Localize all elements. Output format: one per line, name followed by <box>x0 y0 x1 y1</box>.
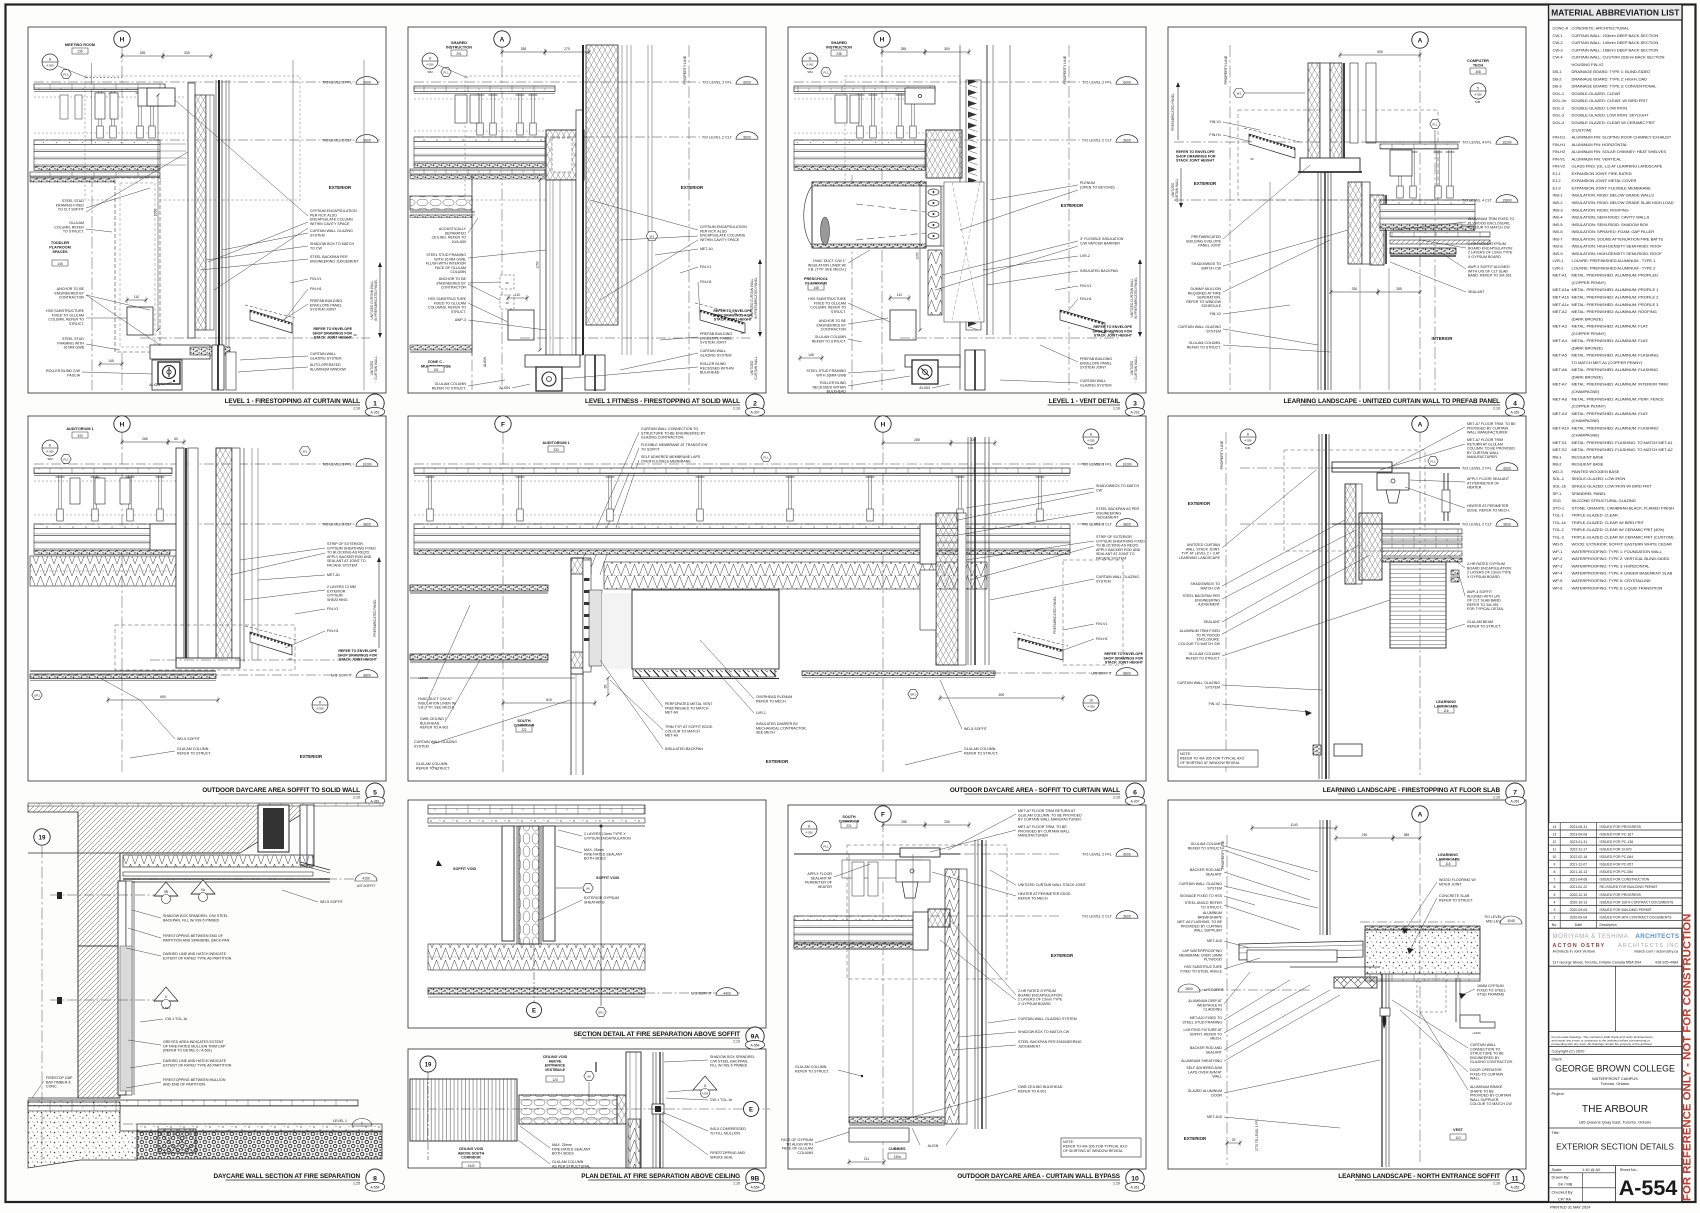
svg-text:330: 330 <box>1352 287 1358 291</box>
detail 11: LEARNING LANDSCAPE - NORTH ENTRANCE SOFFIT <box>1419 822 1421 1165</box>
level lines <box>1240 467 1460 469</box>
svg-text:1:10: 1:10 <box>353 407 360 411</box>
detail 6: OUTDOOR DAYCARE AREA - SOFFIT TO CURTAIN WALL <box>502 432 504 775</box>
svg-text:Copyright (C) 2020: Copyright (C) 2020 <box>1552 1048 1586 1053</box>
svg-text:120: 120 <box>552 1078 558 1082</box>
svg-text:ISSUED FOR PC-057: ISSUED FOR PC-057 <box>1600 863 1634 867</box>
svg-text:AWP-3: AWP-3 <box>455 318 466 322</box>
svg-text:U/S SOFFIT: U/S SOFFIT <box>1204 988 1225 992</box>
crosshatch band soffit <box>1334 977 1377 988</box>
svg-text:20: 20 <box>740 331 744 335</box>
material abbreviation list header <box>1549 5 1682 21</box>
svg-text:OUTDOOR DAYCARE AREA - SOFFIT: OUTDOOR DAYCARE AREA - SOFFIT TO CURTAIN… <box>950 787 1120 794</box>
svg-text:285: 285 <box>140 51 146 55</box>
svg-text:60: 60 <box>174 437 178 441</box>
ceiling hangers <box>428 475 430 521</box>
svg-text:2021-02-22: 2021-02-22 <box>1570 885 1588 889</box>
svg-text:FL1: FL1 <box>823 844 829 848</box>
svg-text:CONCRETE SLABREFER TO STRUCT.: CONCRETE SLABREFER TO STRUCT. <box>1439 894 1473 902</box>
svg-text:AWP-3 SOFFIT ALIGNEDWITH U/S O: AWP-3 SOFFIT ALIGNEDWITH U/S OF CLT SLAB… <box>1468 265 1512 278</box>
dimension 330 <box>951 442 995 444</box>
svg-text:SK / MB: SK / MB <box>1558 1182 1573 1187</box>
clt ledge <box>150 524 178 550</box>
dimension 285 <box>122 55 163 57</box>
svg-text:9B: 9B <box>751 1175 760 1182</box>
revision table <box>1549 823 1682 831</box>
door verticals <box>1381 974 1383 1167</box>
left wall below <box>410 211 475 213</box>
svg-text:FIN-V1: FIN-V1 <box>327 607 338 611</box>
svg-text:PROPERTY LINE: PROPERTY LINE <box>1063 55 1067 84</box>
svg-text:1:10: 1:10 <box>1113 796 1120 800</box>
svg-text:2024-05-31: 2024-05-31 <box>1570 825 1588 829</box>
svg-text:116: 116 <box>1443 709 1448 713</box>
dimension 505 <box>1340 54 1420 56</box>
glulam beam <box>1390 562 1446 648</box>
detail key 10/A-556 <box>1083 695 1099 711</box>
roller blind circle <box>158 362 180 384</box>
door frame dark top right <box>258 805 289 852</box>
svg-text:1050: 1050 <box>153 209 157 217</box>
svg-text:SIM: SIM <box>427 70 433 74</box>
svg-text:Checked By:: Checked By: <box>1552 1189 1574 1194</box>
tag W1 <box>1234 88 1245 97</box>
svg-text:5600: 5600 <box>743 135 751 139</box>
grid bubble A <box>1412 416 1428 432</box>
svg-text:FIN-V1: FIN-V1 <box>1210 120 1221 124</box>
note box <box>1061 1138 1141 1157</box>
wall below left <box>570 674 572 775</box>
svg-text:W1: W1 <box>1237 91 1242 95</box>
svg-text:5: 5 <box>1553 893 1555 897</box>
svg-text:LEARNING LANDSCAPE - FIRESTOPP: LEARNING LANDSCAPE - FIRESTOPPING AT FLO… <box>1323 787 1501 794</box>
svg-text:A-554: A-554 <box>1619 1176 1678 1200</box>
svg-text:H: H <box>881 421 886 428</box>
svg-text:11: 11 <box>1553 847 1557 851</box>
svg-text:T/O LEVEL 4 FFL: T/O LEVEL 4 FFL <box>1462 140 1492 144</box>
slab support lines below <box>1365 974 1480 981</box>
svg-text:221: 221 <box>846 824 852 828</box>
svg-text:T/O LEVEL 3 FFL: T/O LEVEL 3 FFL <box>322 462 352 466</box>
svg-text:CURTAIN WALL: CURTAIN WALL <box>1134 356 1138 380</box>
grid bubble A <box>1412 806 1428 822</box>
svg-text:T/O LEVEL 2 CLT: T/O LEVEL 2 CLT <box>1082 914 1113 918</box>
svg-text:GLULAM COLUMNREFER TO STRUCT.: GLULAM COLUMNREFER TO STRUCT. <box>1188 842 1223 850</box>
svg-text:FIN-V1: FIN-V1 <box>700 265 711 269</box>
grid circle 19 <box>34 829 50 845</box>
awp3 bits <box>1451 570 1459 575</box>
svg-text:LEVEL 1 - VENT DETAIL: LEVEL 1 - VENT DETAIL <box>1049 398 1120 405</box>
svg-text:IN PREFABRICATED PANEL: IN PREFABRICATED PANEL <box>1134 277 1138 319</box>
svg-text:2022-02-18: 2022-02-18 <box>1570 855 1588 859</box>
svg-text:3: 3 <box>1553 908 1555 912</box>
mullion joint symbol <box>652 1104 664 1114</box>
svg-text:HSS SUBSTRUCTUREFIXED TO STEEL: HSS SUBSTRUCTUREFIXED TO STEEL ANGLE <box>1180 965 1222 973</box>
svg-text:145: 145 <box>108 359 114 363</box>
prefab sloped fin <box>700 310 745 333</box>
svg-text:5: 5 <box>373 789 377 796</box>
stack joint dashed line <box>140 337 370 339</box>
svg-text:H: H <box>880 36 885 43</box>
detail key 8/A-556 <box>1240 429 1256 445</box>
svg-text:WD-5 SOFFIT: WD-5 SOFFIT <box>320 900 344 904</box>
svg-text:PRINTED 31 MAY 2024: PRINTED 31 MAY 2024 <box>1550 1206 1590 1210</box>
svg-text:110: 110 <box>134 295 140 299</box>
svg-text:SEALANT: SEALANT <box>1204 620 1221 624</box>
cavity lines <box>251 448 253 660</box>
svg-text:A-351: A-351 <box>1510 799 1519 803</box>
dimension 690 <box>940 697 1063 699</box>
svg-text:ISSUED FOR CONSTRUCTION: ISSUED FOR CONSTRUCTION <box>1600 878 1650 882</box>
svg-text:110: 110 <box>897 293 903 297</box>
svg-text:10200: 10200 <box>362 462 371 466</box>
svg-text:11: 11 <box>808 56 812 60</box>
svg-text:201: 201 <box>456 52 462 56</box>
detail 3: LEVEL 1 - VENT DETAIL <box>881 45 883 390</box>
svg-text:T/O LEVEL 2 FFL: T/O LEVEL 2 FFL <box>1082 80 1112 84</box>
dimension 285 <box>883 442 951 444</box>
svg-text:ISSUED FOR PC-136: ISSUED FOR PC-136 <box>1600 840 1634 844</box>
svg-text:CUBBIES: CUBBIES <box>888 1147 906 1151</box>
svg-text:FL1: FL1 <box>63 457 69 461</box>
svg-text:8: 8 <box>373 1175 377 1182</box>
svg-text:15800: 15800 <box>1502 198 1511 202</box>
svg-text:UNITIZED CURTAIN WALL STACK JO: UNITIZED CURTAIN WALL STACK JOINT. <box>1018 883 1087 887</box>
floor slab assembly <box>414 524 1070 529</box>
svg-text:GEORGE BROWN COLLEGE: GEORGE BROWN COLLEGE <box>1555 1064 1675 1074</box>
prefab panel sloped fin <box>250 310 292 333</box>
window head assembly <box>150 345 210 359</box>
sloped soffit line <box>300 862 330 870</box>
svg-text:2770 TO LEVEL 1 FFL: 2770 TO LEVEL 1 FFL <box>1255 1119 1259 1151</box>
svg-text:19: 19 <box>39 835 46 842</box>
sloped fin right <box>250 632 292 655</box>
svg-text:1:10 @ A0: 1:10 @ A0 <box>1582 1167 1601 1172</box>
floor slab assembly <box>414 137 545 142</box>
svg-text:A-361: A-361 <box>370 799 379 803</box>
svg-text:6000: 6000 <box>1503 466 1511 470</box>
svg-text:WD-5 SOFFIT: WD-5 SOFFIT <box>177 737 201 741</box>
svg-text:SIM.: SIM. <box>1245 446 1251 450</box>
svg-text:2 LAYERS 13mm TYPE XGYPSUM ENC: 2 LAYERS 13mm TYPE XGYPSUM ENCAPSULATION <box>584 832 631 840</box>
svg-text:416-925-4484: 416-925-4484 <box>1655 960 1678 964</box>
panel P10 border <box>788 805 1146 1169</box>
svg-text:EXTERIOR: EXTERIOR <box>766 759 789 764</box>
svg-text:1: 1 <box>373 400 377 407</box>
dimension 285 <box>882 51 925 53</box>
svg-text:330: 330 <box>184 51 190 55</box>
plenum outline <box>944 182 984 322</box>
heater box <box>1377 473 1409 490</box>
triangle marker 8/A-554 <box>693 1076 717 1090</box>
svg-text:LEVEL 1: LEVEL 1 <box>333 1119 347 1123</box>
floor trim top <box>794 853 960 855</box>
svg-text:ISSUED FOR BUILDING PERMIT: ISSUED FOR BUILDING PERMIT <box>1600 908 1653 912</box>
svg-text:CURTAIN WALL: CURTAIN WALL <box>374 356 378 380</box>
dashed box right <box>1063 560 1123 665</box>
detail key 8/A-556 <box>422 53 438 69</box>
tag A6 <box>583 884 593 893</box>
svg-text:ANCHOR TO BEENGINEERED BYCONTR: ANCHOR TO BEENGINEERED BYCONTRACTOR <box>436 277 466 290</box>
svg-text:W1: W1 <box>303 449 308 453</box>
tag W1 <box>646 231 658 241</box>
svg-text:Toronto, Ontario: Toronto, Ontario <box>1601 1081 1630 1086</box>
svg-text:5600: 5600 <box>1503 522 1511 526</box>
interior face lines <box>28 852 240 854</box>
svg-text:F: F <box>881 811 885 818</box>
svg-text:FL1: FL1 <box>63 72 69 76</box>
svg-text:PREFABRICATED PANEL: PREFABRICATED PANEL <box>373 599 377 637</box>
svg-text:385: 385 <box>1404 833 1410 837</box>
backpan boxes <box>920 524 936 564</box>
panel P11 border <box>1168 800 1526 1169</box>
fin top left sloped <box>1249 134 1295 158</box>
grid circle 19 <box>420 1056 436 1072</box>
firestop crosshatch box at clt <box>546 130 584 180</box>
tag FL1 <box>1428 457 1438 466</box>
svg-text:8: 8 <box>49 57 51 61</box>
soffit assembly bands <box>123 855 313 867</box>
svg-text:A-556: A-556 <box>46 450 54 454</box>
soffit bottom band <box>428 988 645 994</box>
dimension 110 <box>508 297 527 299</box>
grid bubble H <box>875 416 891 432</box>
dimension 330 <box>163 55 211 57</box>
svg-text:ALIGN: ALIGN <box>499 386 510 390</box>
svg-text:EXTERIOR: EXTERIOR <box>1188 501 1211 506</box>
ceiling band <box>34 468 172 474</box>
svg-text:11: 11 <box>1511 1175 1518 1182</box>
svg-text:A-556: A-556 <box>316 707 324 711</box>
svg-text:ARCHITECTS INC: ARCHITECTS INC <box>1618 943 1680 949</box>
tag FL1 <box>441 68 451 77</box>
svg-text:A6: A6 <box>587 1074 591 1078</box>
svg-text:ISSUED FOR 100% CONTRACT DOCUM: ISSUED FOR 100% CONTRACT DOCUMENTS <box>1600 900 1675 904</box>
hss substructure box <box>127 307 153 335</box>
svg-text:FIN-V2: FIN-V2 <box>1209 702 1220 706</box>
svg-text:7: 7 <box>1513 789 1517 796</box>
insulation batt band <box>30 556 176 586</box>
svg-text:GLULAM COLUMN.REFER TO STRUCT.: GLULAM COLUMN.REFER TO STRUCT. <box>964 747 998 755</box>
svg-text:ALIGN: ALIGN <box>928 1144 939 1148</box>
ceiling band <box>414 86 555 92</box>
svg-text:H: H <box>120 421 125 428</box>
svg-text:SIM: SIM <box>47 457 53 461</box>
svg-text:8: 8 <box>1247 432 1249 436</box>
svg-text:A: A <box>1418 421 1423 428</box>
us soffit marker <box>123 878 360 880</box>
svg-text:MEETING ROOM: MEETING ROOM <box>65 43 95 47</box>
svg-text:4: 4 <box>1513 400 1517 407</box>
svg-text:T/O LEVEL 2 FFL: T/O LEVEL 2 FFL <box>322 80 352 84</box>
svg-text:FIN-H1: FIN-H1 <box>1209 133 1221 137</box>
svg-text:10: 10 <box>1131 1175 1139 1182</box>
left vertical hatched wall lower <box>78 946 120 1098</box>
shadow box section <box>1348 182 1362 264</box>
svg-text:E: E <box>749 1108 753 1114</box>
svg-text:LEVEL 1 - FIRESTOPPING AT CURT: LEVEL 1 - FIRESTOPPING AT CURTAIN WALL <box>225 398 361 405</box>
svg-text:T/O LEVEL 2 FFL: T/O LEVEL 2 FFL <box>1462 466 1492 470</box>
svg-text:3: 3 <box>1133 400 1137 407</box>
dimension 690 <box>108 699 218 701</box>
anchor dashed boxes <box>500 275 514 289</box>
svg-text:1:10: 1:10 <box>1113 407 1120 411</box>
panel P5 border <box>28 416 386 781</box>
long vertical zigzag curtain wall <box>945 869 959 1124</box>
svg-text:ANCHOR TO BEENGINEERED BYCONTR: ANCHOR TO BEENGINEERED BYCONTRACTOR <box>54 287 84 300</box>
tag SP1 <box>908 690 918 699</box>
svg-text:ISSUED FOR PC-084: ISSUED FOR PC-084 <box>1600 855 1634 859</box>
window sill below <box>176 658 240 668</box>
svg-text:A-556: A-556 <box>1244 439 1252 443</box>
tag A6 <box>584 1072 594 1081</box>
wall at left section <box>571 558 583 674</box>
svg-text:13: 13 <box>1552 832 1556 836</box>
sloped fin bottom right <box>1018 638 1063 660</box>
svg-text:5600: 5600 <box>1123 914 1131 918</box>
floor slab assembly <box>794 140 925 145</box>
svg-text:ISSUED FOR PC-167: ISSUED FOR PC-167 <box>1600 832 1634 836</box>
floor slab assembly <box>34 524 170 529</box>
svg-text:INSULATED BACKPAN: INSULATED BACKPAN <box>665 747 703 751</box>
svg-text:5600: 5600 <box>1123 138 1131 142</box>
svg-text:GLULAM COLUMNREFER TO STRUCT.: GLULAM COLUMNREFER TO STRUCT. <box>1186 652 1221 660</box>
svg-text:INSULATED BACKPAN: INSULATED BACKPAN <box>1080 269 1118 273</box>
svg-text:Description: Description <box>1600 923 1617 927</box>
svg-text:8: 8 <box>49 443 51 447</box>
svg-text:FIN-H1: FIN-H1 <box>1096 637 1108 641</box>
svg-text:T/O LEVEL 3 CLT: T/O LEVEL 3 CLT <box>1082 522 1113 526</box>
floor slab assembly <box>34 140 160 145</box>
svg-text:PROPERTY LINE: PROPERTY LINE <box>1224 55 1228 84</box>
svg-text:T/O LEVEL 2 CLT: T/O LEVEL 2 CLT <box>322 138 353 142</box>
detail 7: LEARNING LANDSCAPE - FIRESTOPPING AT FLOOR SLAB <box>1419 430 1421 775</box>
svg-text:FIN-V1: FIN-V1 <box>310 277 321 281</box>
svg-text:EXTERIOR: EXTERIOR <box>1194 181 1217 186</box>
dashed outline <box>847 845 1007 979</box>
svg-text:16MM GYPSUMFIXED TO STEELSTUD: 16MM GYPSUMFIXED TO STEELSTUD FRAMING <box>1477 984 1506 997</box>
svg-text:4400: 4400 <box>723 991 731 995</box>
svg-text:LEARNING LANDSCAPE - UNITIZED: LEARNING LANDSCAPE - UNITIZED CURTAIN WA… <box>1284 398 1501 405</box>
svg-text:MET-A1: MET-A1 <box>327 573 340 577</box>
svg-text:SOFFIT VOID: SOFFIT VOID <box>453 867 476 871</box>
top hatched ceiling mass <box>28 805 305 946</box>
shaft walls <box>502 826 514 941</box>
svg-text:+20800: +20800 <box>418 676 428 680</box>
exterior sheathing hatch <box>586 45 618 325</box>
svg-text:FIN-V2: FIN-V2 <box>1210 312 1221 316</box>
central wall assembly <box>546 180 576 355</box>
detail key 8/A-556 <box>42 54 58 70</box>
curtain wall below <box>1317 172 1319 390</box>
grid bubble A <box>494 31 510 47</box>
material abbreviation list box <box>1549 5 1682 1203</box>
dimension 270 <box>545 51 589 53</box>
svg-text:U/S SOFFIT: U/S SOFFIT <box>691 991 713 995</box>
detail 2: LEVEL 1 FITNESS - FIRESTOPPING AT SOLID WALL <box>501 45 503 390</box>
property line <box>688 45 690 390</box>
svg-text:IN PREFABRICATED PANEL: IN PREFABRICATED PANEL <box>754 277 758 319</box>
svg-text:REFER TO ENVELOPESHOP DRAWINGS: REFER TO ENVELOPESHOP DRAWINGS FORSTACK … <box>713 309 753 322</box>
svg-text:9800: 9800 <box>1123 522 1131 526</box>
clt slab edge lines <box>160 143 186 145</box>
svg-text:W1: W1 <box>650 234 655 238</box>
curtain wall mullion bundle <box>1318 434 1320 779</box>
svg-text:690: 690 <box>160 695 166 699</box>
grid bubble A <box>1412 32 1428 48</box>
dimension 1050 <box>539 180 541 350</box>
svg-text:THE ARBOUR: THE ARBOUR <box>1582 1104 1648 1115</box>
svg-text:7: 7 <box>1553 878 1555 882</box>
svg-text:FL1: FL1 <box>443 70 449 74</box>
tag FL1 <box>821 68 831 77</box>
svg-text:A-202: A-202 <box>1130 410 1139 414</box>
svg-text:115: 115 <box>1445 862 1450 866</box>
tag FL1 <box>61 455 71 464</box>
level lines <box>1174 141 1460 143</box>
svg-text:101: 101 <box>433 368 439 372</box>
dimension 25 <box>1227 1142 1240 1144</box>
svg-text:235: 235 <box>77 50 83 54</box>
svg-text:AUDITORIUM 1: AUDITORIUM 1 <box>542 441 569 445</box>
svg-text:CEILING VOIDABOVE SOUTHCORRIDO: CEILING VOIDABOVE SOUTHCORRIDOR <box>458 1147 485 1160</box>
svg-text:ALUMINUM TRIM FIXED TOPLYWOOD: ALUMINUM TRIM FIXED TOPLYWOOD ENCLOSURE,… <box>1468 217 1515 230</box>
svg-text:A-307: A-307 <box>750 410 759 414</box>
detail key 11/X-561 <box>802 53 818 69</box>
svg-text:OUTDOOR DAYCARE AREA - CURTAIN: OUTDOOR DAYCARE AREA - CURTAIN WALL BYPA… <box>957 1173 1121 1180</box>
svg-text:HEATER AT PERIMETEREDGE. REFER: HEATER AT PERIMETEREDGE. REFER TO MECH. <box>1467 504 1510 512</box>
svg-text:X-561: X-561 <box>806 63 814 67</box>
svg-text:GLULAM COLUMN.REFER TO STRUCT.: GLULAM COLUMN.REFER TO STRUCT. <box>795 1065 829 1073</box>
svg-text:PREFABRICATED PANEL: PREFABRICATED PANEL <box>1171 93 1175 131</box>
svg-text:117 George Street, Toronto, On: 117 George Street, Toronto, Ontario Cana… <box>1553 960 1642 964</box>
svg-text:CEILING VOIDABOVEENTRANCEVESTI: CEILING VOIDABOVEENTRANCEVESTIBULE <box>543 1055 568 1072</box>
floor trim assembly top <box>1332 462 1392 472</box>
svg-text:2: 2 <box>753 400 757 407</box>
svg-text:5: 5 <box>1477 86 1479 90</box>
svg-text:SF1: SF1 <box>598 1010 604 1014</box>
gypsum encapsulation box <box>147 88 175 106</box>
svg-text:1:10: 1:10 <box>733 1182 740 1186</box>
svg-text:Project:: Project: <box>1552 1091 1565 1096</box>
svg-text:SECTION DETAIL AT FIRE SEPARAT: SECTION DETAIL AT FIRE SEPARATION ABOVE … <box>574 1031 741 1038</box>
interior lines <box>848 854 850 1117</box>
svg-text:690: 690 <box>999 693 1005 697</box>
svg-text:A-351: A-351 <box>1510 1185 1519 1189</box>
exterior face lines <box>225 80 227 390</box>
svg-text:SIM.: SIM. <box>1088 446 1094 450</box>
level line T/O LEVEL 2 FFL <box>34 81 380 83</box>
svg-text:GLULAM COLUMN.REFER TO STRUCT.: GLULAM COLUMN.REFER TO STRUCT. <box>416 762 450 770</box>
svg-text:EXTERIOR: EXTERIOR <box>681 185 704 190</box>
svg-text:8: 8 <box>704 1084 706 1088</box>
svg-text:25: 25 <box>1232 1138 1236 1142</box>
dimension 65 <box>607 678 609 695</box>
wall assembly <box>176 448 184 658</box>
svg-text:U/S SOFFIT: U/S SOFFIT <box>1091 671 1113 675</box>
panel P7 border <box>1168 416 1526 781</box>
svg-text:505: 505 <box>1377 50 1383 54</box>
svg-text:1:10: 1:10 <box>1493 796 1500 800</box>
panel P9A border <box>408 800 766 1028</box>
room boundary dotted <box>86 77 122 79</box>
dimension 230 <box>1336 837 1393 839</box>
svg-text:270: 270 <box>564 47 570 51</box>
svg-text:VEST: VEST <box>1453 1128 1464 1132</box>
svg-text:8: 8 <box>808 824 810 828</box>
svg-text:1443: 1443 <box>467 1164 474 1168</box>
svg-text:Sheet No.:: Sheet No.: <box>1620 1167 1638 1172</box>
